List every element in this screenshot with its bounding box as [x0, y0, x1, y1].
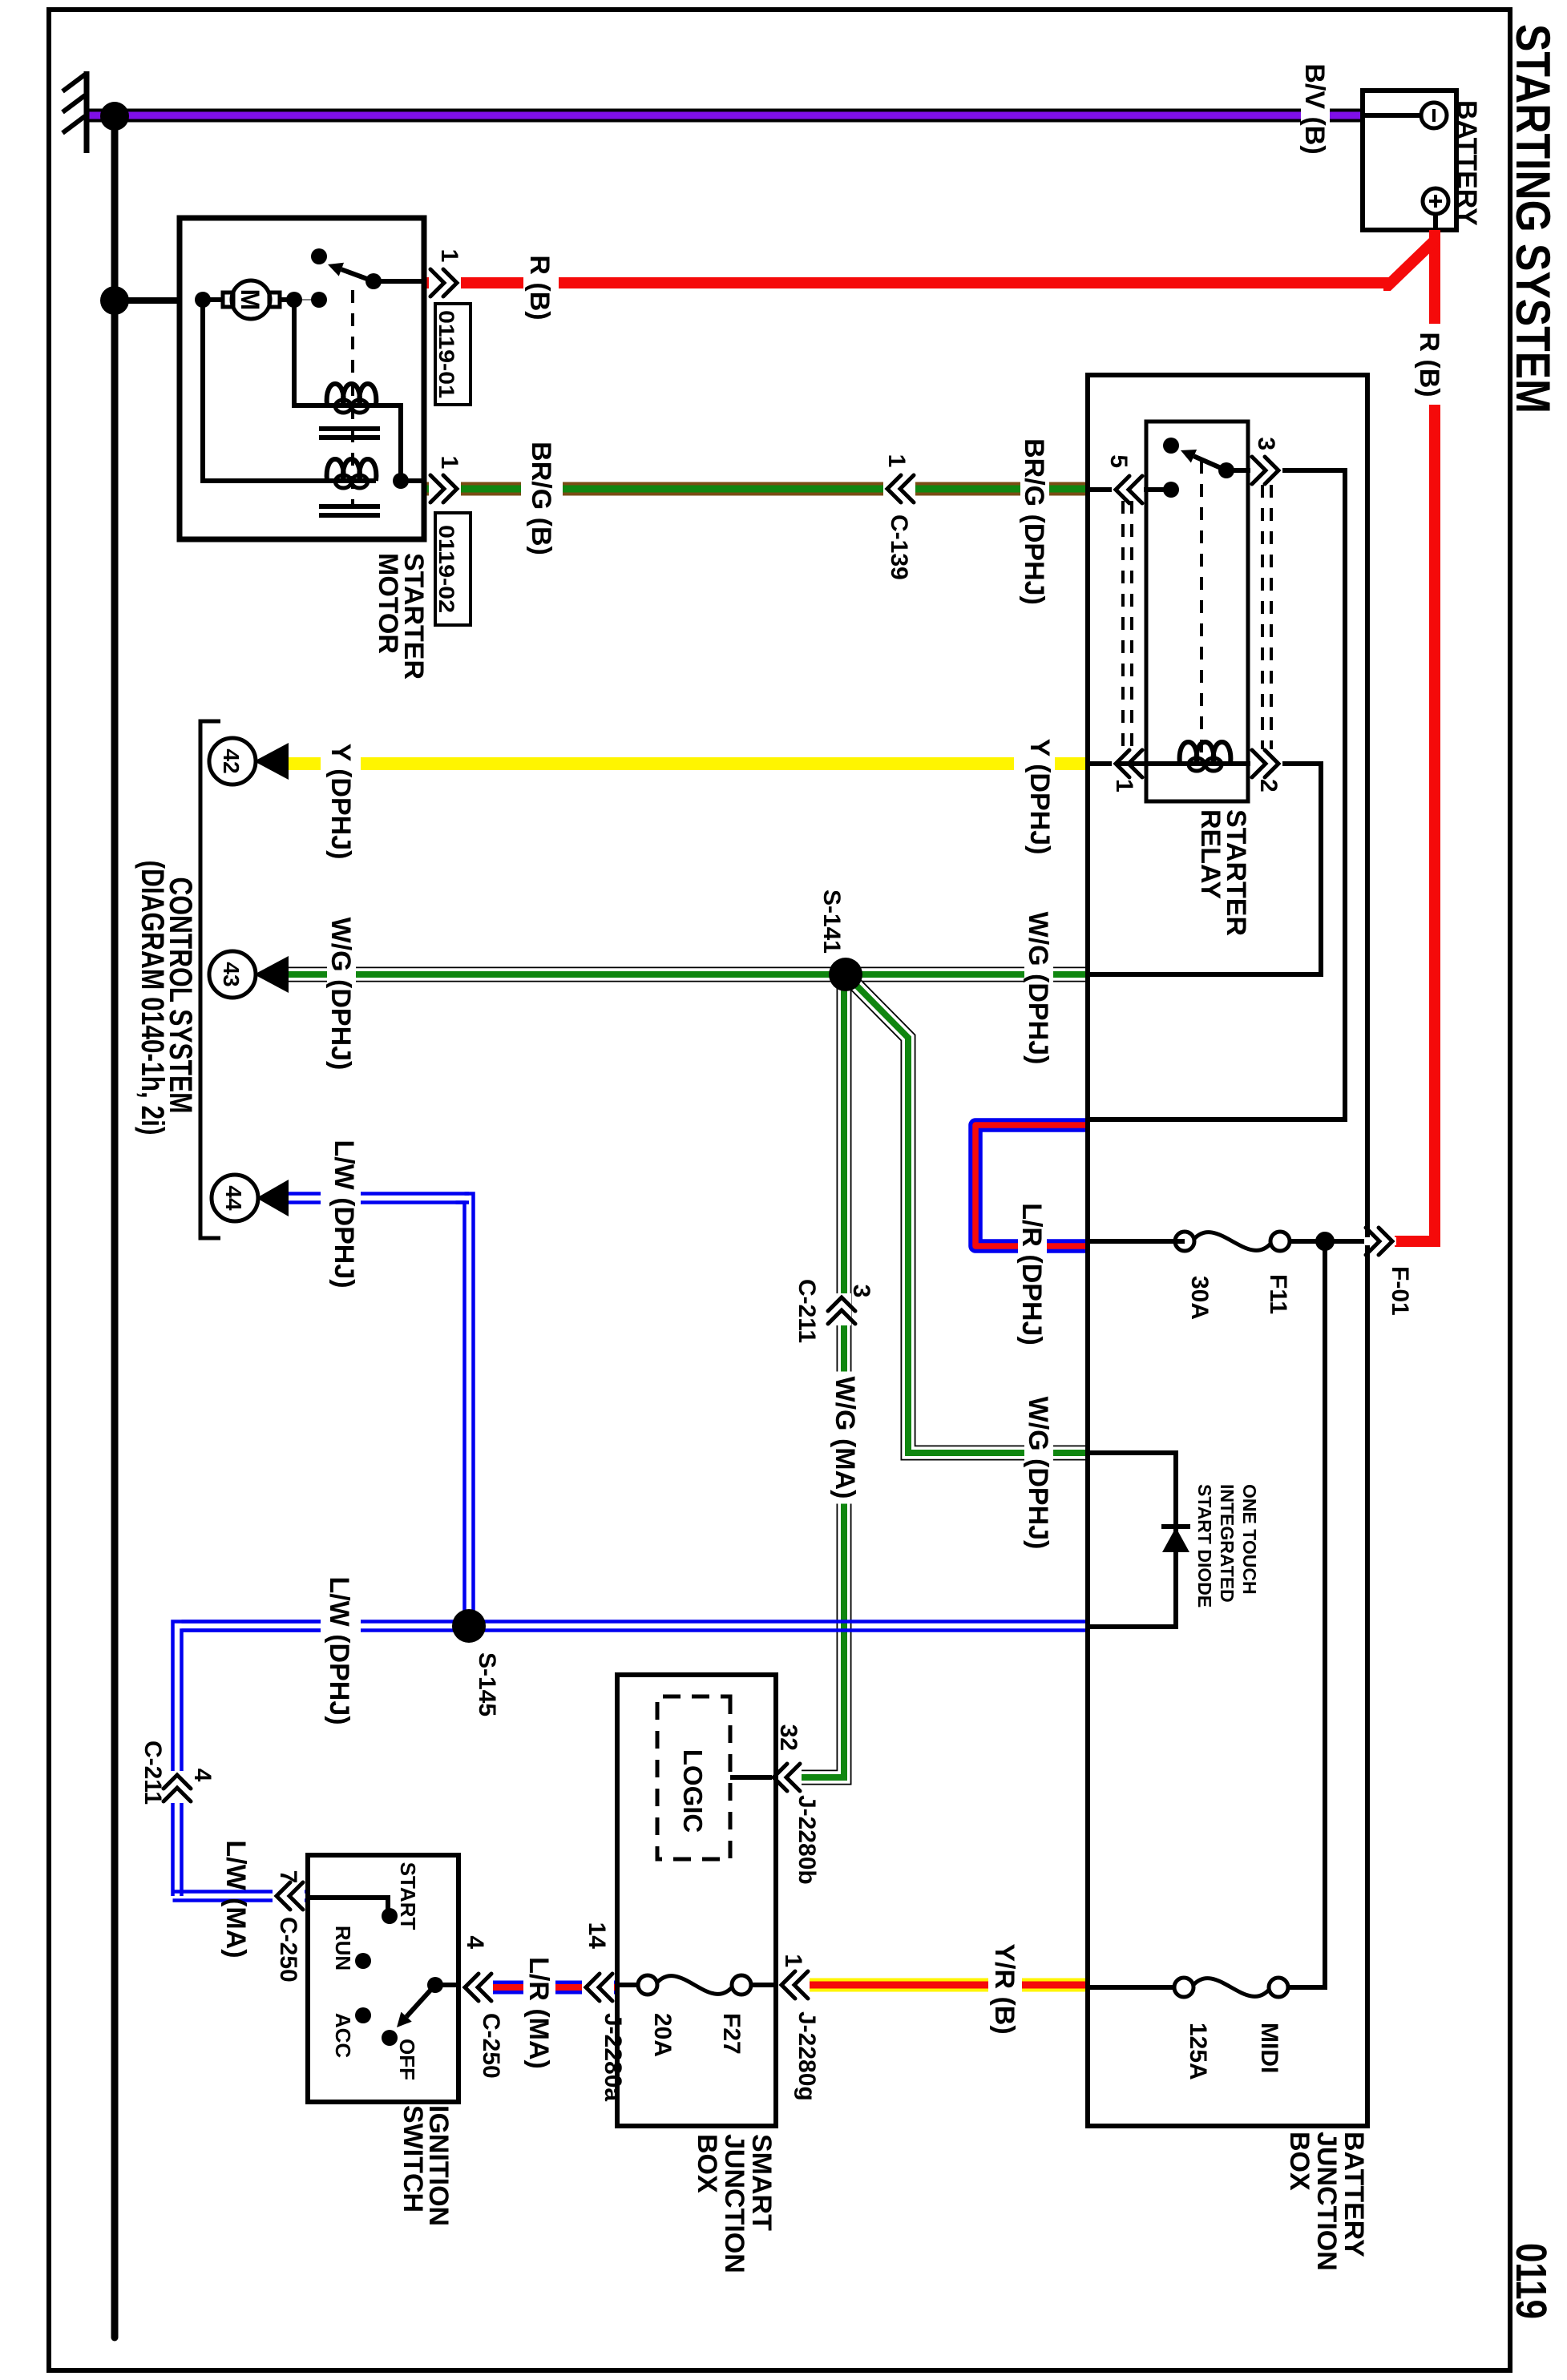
svg-text:C-211: C-211: [139, 1741, 166, 1805]
svg-text:L/R (DPHJ): L/R (DPHJ): [1016, 1203, 1047, 1345]
svg-text:ACC: ACC: [331, 2013, 355, 2059]
svg-text:4: 4: [462, 1935, 488, 1949]
svg-text:7: 7: [275, 1870, 301, 1884]
svg-text:3: 3: [848, 1285, 874, 1298]
svg-text:42: 42: [219, 748, 244, 773]
svg-text:14: 14: [584, 1922, 610, 1950]
svg-text:J-2280b: J-2280b: [794, 1795, 820, 1885]
svg-text:F27: F27: [718, 2013, 745, 2055]
svg-text:1: 1: [780, 1954, 806, 1967]
svg-text:1: 1: [1111, 779, 1137, 793]
svg-text:BOX: BOX: [1284, 2132, 1315, 2191]
svg-text:MIDI: MIDI: [1256, 2023, 1282, 2073]
svg-text:2: 2: [1255, 779, 1282, 793]
svg-text:Y (DPHJ): Y (DPHJ): [1024, 739, 1055, 855]
svg-text:F11: F11: [1265, 1274, 1291, 1314]
svg-text:3: 3: [1253, 437, 1279, 450]
svg-text:W/G (DPHJ): W/G (DPHJ): [325, 918, 356, 1071]
svg-text:20A: 20A: [649, 2013, 676, 2057]
svg-text:W/G (DPHJ): W/G (DPHJ): [1023, 1397, 1053, 1550]
svg-text:RUN: RUN: [331, 1926, 355, 1971]
svg-text:BR/G (B): BR/G (B): [526, 442, 556, 555]
svg-text:R (B): R (B): [524, 255, 555, 320]
svg-text:SMART: SMART: [746, 2134, 777, 2231]
svg-text:1: 1: [436, 249, 462, 263]
svg-text:1: 1: [883, 454, 910, 468]
svg-text:0119-01: 0119-01: [434, 310, 458, 398]
svg-text:L/W (DPHJ): L/W (DPHJ): [324, 1576, 354, 1724]
svg-text:Y/R (B): Y/R (B): [989, 1943, 1020, 2034]
svg-text:L/W (DPHJ): L/W (DPHJ): [329, 1140, 359, 1288]
svg-text:BATTERY: BATTERY: [1339, 2132, 1369, 2257]
svg-text:M: M: [236, 289, 265, 311]
svg-text:BR/G (DPHJ): BR/G (DPHJ): [1019, 438, 1049, 605]
svg-text:STARTING SYSTEM: STARTING SYSTEM: [1506, 24, 1560, 413]
svg-text:LOGIC: LOGIC: [678, 1749, 708, 1833]
svg-text:J-2280a: J-2280a: [600, 2013, 626, 2101]
svg-text:W/G (DPHJ): W/G (DPHJ): [1023, 912, 1053, 1065]
svg-text:JUNCTION: JUNCTION: [1311, 2132, 1342, 2271]
svg-text:J-2280g: J-2280g: [794, 2011, 820, 2101]
svg-text:0119-02: 0119-02: [434, 525, 458, 613]
svg-text:W/G (MA): W/G (MA): [830, 1377, 860, 1499]
svg-text:C-250: C-250: [478, 2013, 504, 2079]
svg-text:B/V (B): B/V (B): [1299, 63, 1330, 154]
svg-text:44: 44: [221, 1185, 246, 1211]
svg-text:S-141: S-141: [818, 889, 845, 954]
svg-text:R (B): R (B): [1414, 332, 1444, 397]
svg-text:SWITCH: SWITCH: [398, 2105, 428, 2213]
svg-text:1: 1: [436, 456, 462, 470]
svg-text:32: 32: [775, 1724, 802, 1751]
svg-text:125A: 125A: [1185, 2023, 1211, 2080]
svg-text:ONE TOUCH: ONE TOUCH: [1239, 1484, 1260, 1595]
svg-text:4: 4: [189, 1769, 216, 1782]
svg-text:5: 5: [1105, 454, 1132, 468]
svg-text:BOX: BOX: [692, 2134, 722, 2193]
svg-text:MOTOR: MOTOR: [373, 553, 403, 654]
svg-text:INTEGRATED: INTEGRATED: [1217, 1484, 1238, 1603]
svg-text:43: 43: [219, 962, 244, 986]
svg-text:0119: 0119: [1507, 2243, 1555, 2319]
svg-text:C-139: C-139: [886, 514, 912, 580]
svg-text:JUNCTION: JUNCTION: [719, 2134, 749, 2273]
svg-text:S-145: S-145: [474, 1652, 500, 1716]
svg-text:L/R (MA): L/R (MA): [523, 1957, 554, 2069]
svg-text:START: START: [396, 1862, 420, 1930]
svg-text:RELAY: RELAY: [1195, 809, 1226, 899]
svg-text:BATTERY: BATTERY: [1452, 100, 1482, 226]
svg-text:30A: 30A: [1186, 1276, 1213, 1320]
svg-text:F-01: F-01: [1387, 1266, 1413, 1316]
svg-text:C-250: C-250: [275, 1917, 301, 1983]
svg-text:L/W (MA): L/W (MA): [220, 1840, 251, 1958]
svg-text:START DIODE: START DIODE: [1194, 1484, 1215, 1608]
svg-text:(DIAGRAM 0140-1h, 2i): (DIAGRAM 0140-1h, 2i): [135, 861, 170, 1136]
svg-text:Y (DPHJ): Y (DPHJ): [325, 744, 356, 860]
svg-text:OFF: OFF: [395, 2039, 419, 2080]
svg-text:C-211: C-211: [794, 1279, 820, 1343]
